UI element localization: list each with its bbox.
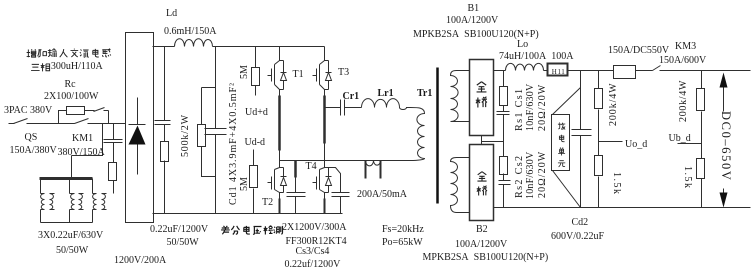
wire T4 emitter to rail	[324, 199, 326, 214]
label B2	[476, 225, 488, 235]
wire filter bottom bracket	[41, 222, 93, 224]
label 500k/2W vertical	[181, 114, 191, 157]
capacitor Cs4	[332, 193, 350, 197]
label B1	[468, 4, 480, 14]
wire T2 emitter to rail	[279, 199, 281, 214]
transformer Tr1 core	[436, 68, 439, 204]
label Cs3/Cs4	[296, 247, 330, 257]
node filter top bar	[40, 177, 93, 180]
label 200k/4W second vertical	[679, 79, 689, 121]
label: 三相300uH/110A	[30, 62, 103, 73]
resistor 1.5k first	[595, 156, 603, 208]
wire output plus	[660, 70, 751, 72]
hall sensor H11 box	[548, 64, 568, 76]
resistor Rs2	[500, 142, 508, 181]
label 50/50W mid	[167, 238, 199, 248]
label Lr1	[378, 89, 394, 99]
label Po=65kW	[382, 238, 423, 248]
wire B1 to B2 link	[482, 136, 504, 145]
diode inside rectifier	[129, 98, 146, 175]
node Uo_d stub	[599, 141, 623, 143]
label 0.22uF/1200V	[150, 225, 208, 235]
label 0.22uf/1200V	[285, 260, 341, 270]
label T3	[338, 68, 349, 78]
node DC0-650V arrow	[720, 73, 728, 208]
wire B1 plus output	[494, 70, 506, 72]
label 150A/600V	[659, 56, 706, 66]
wire Cs3 branch	[294, 161, 297, 214]
wire DC minus rail	[153, 213, 343, 215]
wire filter drops	[41, 179, 93, 223]
label Tr1	[417, 89, 432, 99]
label T1	[293, 70, 304, 80]
wire Rc bypass branch	[59, 111, 109, 124]
label H11	[552, 67, 566, 77]
label DC0-650V vertical	[721, 111, 731, 181]
wire Cs4 branch from T4 collector	[329, 168, 341, 214]
transistor T1	[268, 47, 287, 96]
rectifier B1 full-bridge box	[470, 60, 494, 136]
wire discharge unit diagonals	[553, 88, 581, 208]
capacitor Cs2	[499, 181, 511, 208]
label Rs2 Cs2 vertical	[515, 155, 525, 198]
switch QS	[14, 119, 28, 124]
label KM1	[72, 134, 93, 144]
wire main bus left leg	[215, 47, 217, 214]
resistor in RC branch	[109, 163, 117, 181]
capacitor Cd2 600V/0.22uF	[572, 130, 592, 136]
capacitor Cr1	[341, 100, 345, 116]
wire T1 emitter thick leg	[278, 96, 281, 162]
wire T3 emitter thick leg	[323, 96, 326, 162]
label Lo	[517, 40, 528, 50]
wire bridge midpoint B output	[325, 107, 362, 109]
switch KM3	[653, 66, 661, 71]
label 10nF/630V vertical top	[526, 84, 536, 131]
label 50/50W left	[56, 246, 88, 256]
label 0.6mH/150A	[164, 27, 217, 37]
label QS	[25, 133, 38, 143]
rectifier B2 full-bridge box	[470, 145, 494, 221]
capacitor Cs1	[497, 112, 510, 142]
label 380V/150A	[58, 148, 105, 158]
label KM3	[675, 42, 696, 52]
inductor Lo 74uH/100A	[506, 63, 544, 70]
label 10nF/630V vertical bottom	[526, 151, 536, 198]
wire DC plus bus	[213, 46, 325, 48]
wire Cd branch vertical	[164, 47, 166, 214]
inductor Lr1	[362, 99, 411, 110]
label Rs1 Cs1 vertical	[515, 87, 525, 130]
label 150A/380V	[10, 146, 57, 156]
label 全桥 B2	[476, 171, 488, 197]
transistor T3	[313, 47, 332, 96]
label FF300R12KT4	[286, 237, 347, 247]
label 1.5k first vertical	[611, 172, 621, 196]
label Ub_d	[669, 134, 691, 144]
wire output minus	[494, 207, 751, 209]
capacitor Cs3	[287, 193, 306, 197]
wire input 3AC line	[9, 123, 126, 125]
label 100A/1200V top	[446, 16, 498, 26]
label Ud-d	[245, 138, 266, 148]
label 150A/DC550V	[608, 46, 669, 56]
label Ld	[166, 9, 177, 19]
resistor Rs1	[500, 71, 508, 112]
inductor Ld 0.6mH/150A	[175, 39, 213, 47]
wire RC damping branch	[113, 124, 115, 194]
current transformer 200A/50mA	[366, 161, 381, 179]
capacitor 0.22uF/1200V	[155, 121, 171, 125]
capacitor filter unit1 3X0.22uF/630V	[41, 194, 55, 210]
resistor 500k/2W	[161, 142, 169, 162]
label T2	[262, 198, 273, 208]
label 3X0.22uF/630V	[38, 231, 103, 241]
discharge unit box	[552, 115, 570, 171]
label 5M lower vertical	[240, 177, 250, 191]
resistor 150A/DC550V	[614, 66, 636, 79]
resistor 5M lower	[250, 150, 258, 214]
transformer Tr1 primary winding	[411, 108, 425, 161]
label 1.5k second vertical	[682, 166, 692, 190]
label MPKB2SA SB100U120 top	[413, 30, 539, 40]
resistor Rc 2X100/100W	[67, 107, 85, 115]
wire bridge midpoint A output	[280, 160, 411, 162]
capacitor filter unit2	[70, 194, 84, 210]
wire Lo to hall sensor	[544, 70, 548, 72]
label Ud+d	[245, 108, 268, 118]
transistor T2	[268, 161, 287, 200]
label 2X1200V/300A	[282, 223, 346, 233]
wire rectifier plus output	[153, 46, 175, 48]
resistor bleeder 500k	[198, 125, 206, 147]
label T4	[306, 162, 317, 172]
resistor 5M upper	[252, 47, 260, 96]
label Cd2	[572, 218, 589, 228]
label 5M upper vertical	[240, 65, 250, 79]
label 差分电压检测	[220, 225, 285, 236]
label 600V/0.22uF	[551, 232, 604, 242]
label Fs=20kHz	[382, 225, 424, 235]
node Ub_d stub	[678, 143, 702, 145]
wire resistor to KM3	[636, 70, 653, 72]
label 3PAC 380V	[4, 106, 52, 116]
label MPKB2SA SB100U120 bottom	[423, 253, 549, 263]
wire Cd2 branch	[580, 71, 582, 208]
label 200k/4W first vertical	[609, 82, 619, 126]
resistor 200k/4W first	[595, 71, 603, 156]
switch in Rc bypass	[94, 108, 105, 112]
label: 增加输入交流电感	[26, 48, 112, 59]
wire H11 to precharge resistor	[568, 70, 614, 72]
resistor 200k/4W second	[697, 71, 705, 159]
wire KM1 junction down to filter bar	[72, 124, 103, 178]
wire bleeder branch	[202, 88, 216, 177]
label 100A/1200V bottom	[455, 240, 507, 250]
label Rc	[65, 80, 76, 90]
switch KM1	[75, 119, 89, 124]
label Cr1	[343, 92, 360, 102]
label 放电单元	[557, 122, 566, 168]
transformer Tr1 secondary winding lower	[451, 158, 470, 213]
transistor T4	[313, 161, 332, 200]
label 20ohm/20W vertical top	[538, 83, 548, 130]
capacitor filter unit3	[93, 194, 107, 210]
label 20ohm/20W vertical bottom	[538, 151, 548, 198]
label 74uH/100A 100A	[499, 52, 573, 62]
resistor 1.5k second	[697, 159, 705, 208]
label 2X100/100W	[44, 92, 98, 102]
label 全桥 B1	[475, 81, 488, 109]
capacitor in RC branch	[104, 140, 123, 143]
label 1200V/200A	[114, 256, 166, 266]
rectifier bridge 1200V/200A box	[126, 33, 154, 223]
label Uo_d	[625, 140, 647, 150]
label 200A/50mA	[357, 190, 407, 200]
label Cd1 4X3.9mF+4X0.5mF vertical	[229, 82, 239, 205]
capacitor CdJ bank	[205, 129, 227, 135]
transformer Tr1 secondary winding upper	[451, 71, 470, 122]
